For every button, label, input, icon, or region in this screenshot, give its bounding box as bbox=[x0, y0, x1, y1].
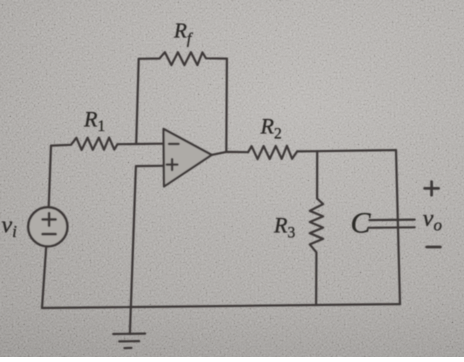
voltage source vi bbox=[28, 207, 67, 246]
wire: bottom ground rail bbox=[42, 304, 400, 308]
wire: feedback left vertical (R1 node up to Rf) bbox=[136, 59, 139, 144]
wire: source bottom to bottom-left corner bbox=[42, 246, 46, 308]
wire: output node to right corner bbox=[297, 150, 396, 151]
svg-text:C: C bbox=[351, 206, 372, 239]
ground bbox=[113, 334, 145, 349]
capacitor C bbox=[370, 220, 415, 228]
label -: output polarity minus bbox=[427, 246, 441, 249]
wire: right rail bbox=[396, 150, 400, 304]
label +: output polarity plus bbox=[425, 182, 439, 196]
resistor R2 bbox=[248, 146, 297, 159]
resistor R1 bbox=[51, 138, 163, 150]
wire: op-amp output to R2 bbox=[212, 152, 249, 155]
resistor Rf bbox=[139, 52, 227, 65]
resistor R3 bbox=[310, 151, 323, 305]
wire: non-inverting input down to ground rail bbox=[130, 166, 163, 334]
wire: feedback right vertical (Rf down to output node) bbox=[225, 59, 228, 152]
wire: left rail from R1 corner down to source top bbox=[49, 146, 51, 208]
op-amp U1 bbox=[164, 129, 212, 187]
